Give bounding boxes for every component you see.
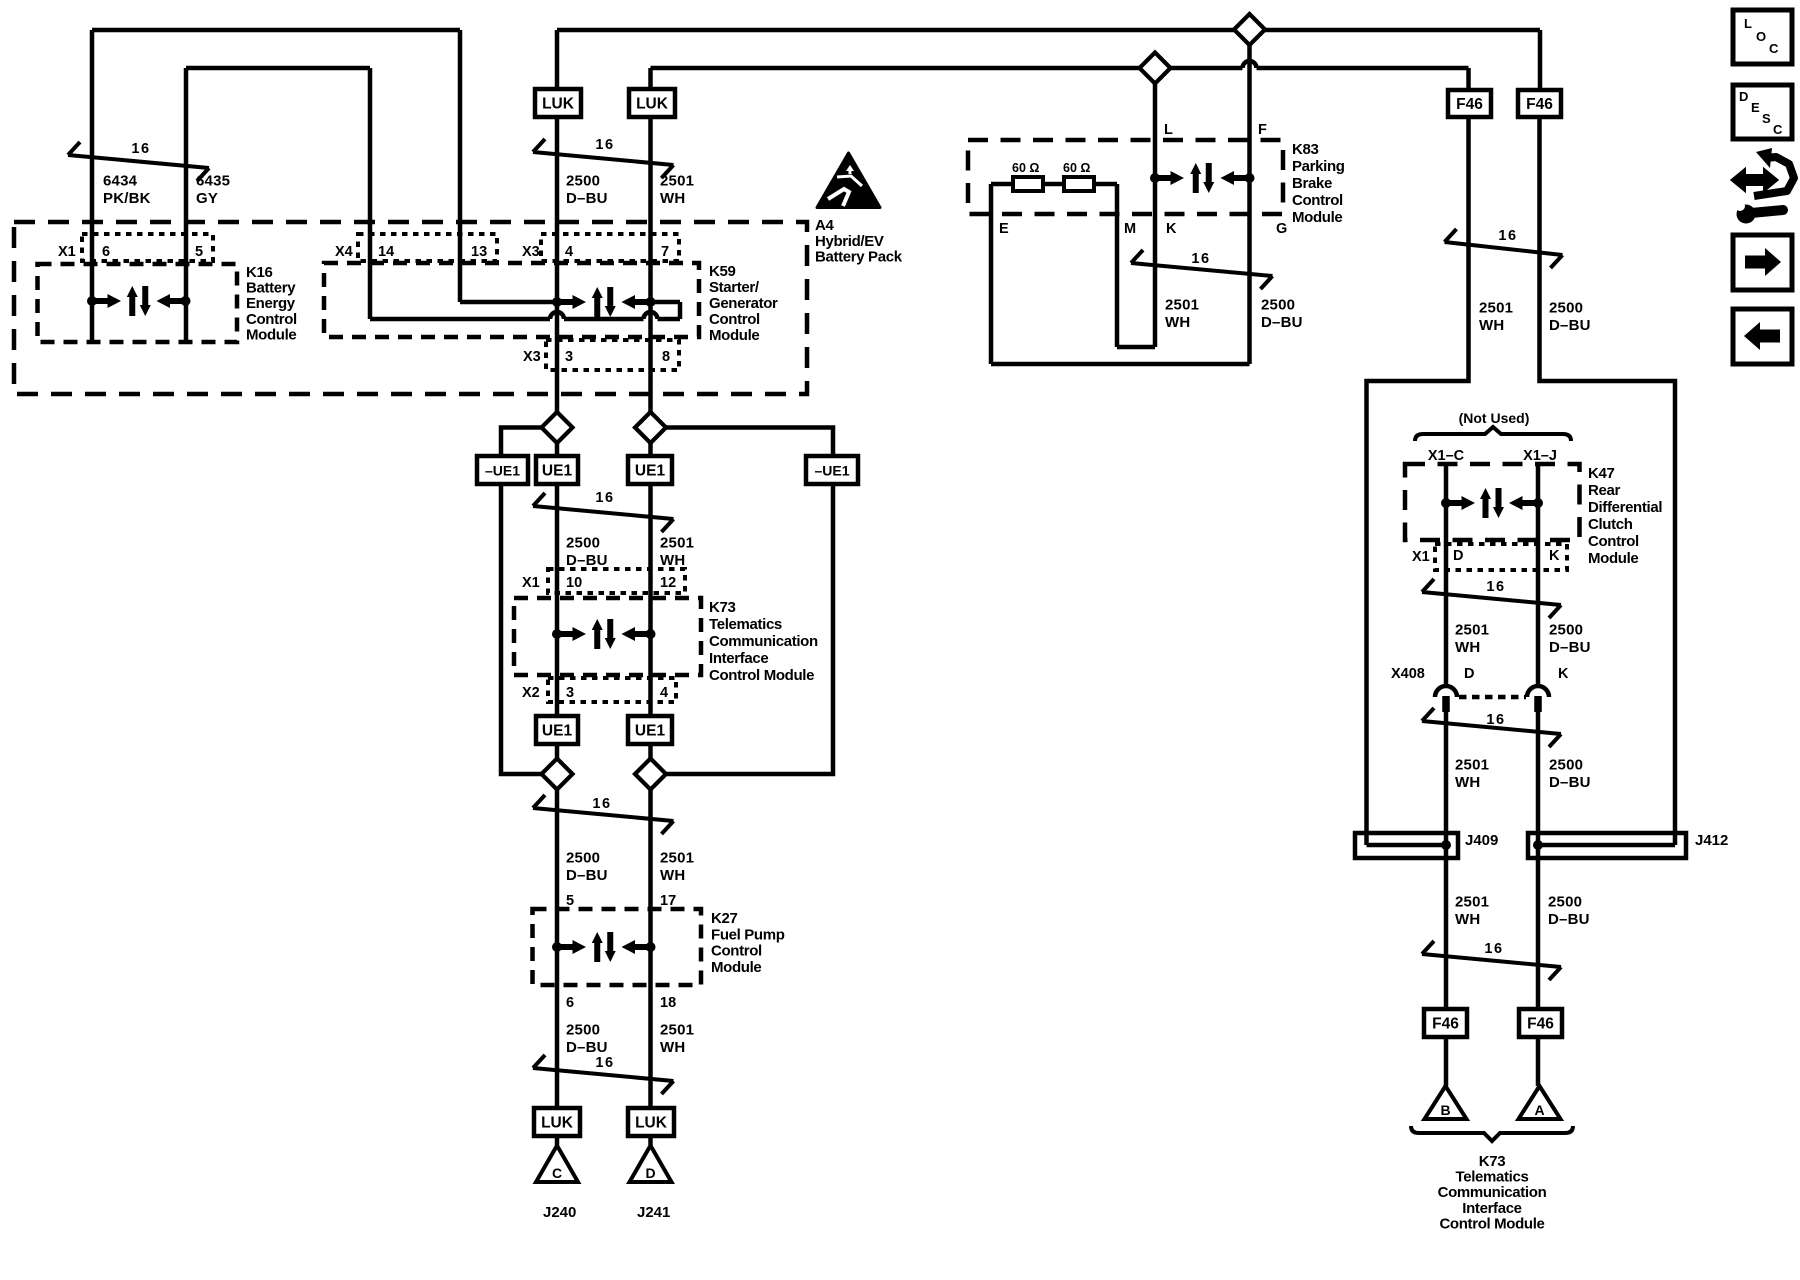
- module K47 outline: [1405, 464, 1580, 540]
- module A4 Hybrid/EV Battery Pack outline: [14, 222, 807, 394]
- node diamond 2500 lower-mid: [542, 759, 573, 790]
- icon wire repair (arrows and wrench): [1733, 148, 1794, 224]
- pin label 6 at (566,1007): [566, 995, 574, 1011]
- label K16 Battery Energy Control Module: [246, 264, 297, 343]
- svg-text:5: 5: [195, 244, 203, 260]
- label 6435 GY: [196, 173, 230, 208]
- svg-text:Telematics: Telematics: [709, 616, 782, 633]
- gauge 16 callout (K27 upper): [533, 795, 674, 834]
- pin label K at (1549,560): [1549, 548, 1560, 564]
- wire 2501 WH right column to J409: [1367, 117, 1469, 845]
- wire K83 pin-M drop joining 2501: [1117, 184, 1155, 347]
- svg-text:Module: Module: [711, 959, 761, 976]
- pin label 13 at (471,256): [471, 244, 487, 260]
- pin label X1 at (1412,561): [1412, 549, 1430, 565]
- svg-text:2500: 2500: [1549, 757, 1583, 774]
- pin label D at (1464,678): [1464, 666, 1474, 682]
- svg-text:4: 4: [660, 685, 668, 701]
- svg-text:5: 5: [566, 893, 574, 909]
- svg-text:16: 16: [595, 490, 614, 506]
- gauge 16 callout (K27 lower): [533, 1055, 674, 1094]
- svg-text:Control: Control: [709, 311, 760, 328]
- svg-text:F46: F46: [1527, 1016, 1554, 1033]
- svg-text:3: 3: [566, 685, 574, 701]
- svg-text:2501: 2501: [660, 535, 694, 552]
- svg-text:Battery Pack: Battery Pack: [815, 249, 903, 266]
- label K73 Telematics (bottom): [1438, 1153, 1547, 1232]
- icon LOC box: [1733, 10, 1792, 64]
- hop of pin-14 loop over 2500 bus: [550, 312, 564, 319]
- svg-text:Interface: Interface: [1462, 1200, 1521, 1217]
- label 2501 WH (K47): [1455, 622, 1489, 657]
- connector LUK bottom 2500: [534, 1108, 580, 1136]
- svg-text:2500: 2500: [566, 1022, 600, 1039]
- svg-text:2501: 2501: [1455, 894, 1489, 911]
- splice J412 pack: [1528, 833, 1686, 858]
- svg-text:Control: Control: [711, 943, 762, 960]
- svg-text:2500: 2500: [566, 535, 600, 552]
- pin label E at (999,233): [999, 221, 1009, 237]
- module K27 outline: [533, 909, 702, 985]
- icon arrow right box: [1733, 235, 1792, 290]
- junction K59 serial data: [552, 287, 656, 317]
- label 2501 WH (F46 top): [1479, 300, 1513, 335]
- label K73 Telematics Communication Interface Control Module: [709, 599, 818, 684]
- svg-text:A4: A4: [815, 217, 834, 234]
- svg-text:Module: Module: [1588, 550, 1638, 567]
- svg-text:X1: X1: [1412, 549, 1430, 565]
- bus 2501 WH left column: [648, 117, 653, 1145]
- svg-text:X3: X3: [522, 244, 540, 260]
- junction K73 serial data: [552, 619, 656, 649]
- label 2500 D-BU (K83): [1261, 297, 1303, 332]
- wire 2501 WH from LUK up over to F46: [651, 68, 1469, 90]
- svg-text:K: K: [1549, 548, 1560, 564]
- svg-text:Parking: Parking: [1292, 158, 1345, 175]
- svg-text:Communication: Communication: [709, 633, 818, 650]
- icon DESC box: [1733, 85, 1792, 139]
- connector X2 pin box (K73): [548, 678, 676, 702]
- label A4 Hybrid/EV Battery Pack: [815, 217, 903, 266]
- svg-text:Fuel Pump: Fuel Pump: [711, 926, 785, 943]
- connector UE1 upper 2501: [628, 456, 672, 484]
- hazard warning triangle (A4 battery pack): [817, 153, 880, 208]
- pin label 18 at (660,1007): [660, 995, 676, 1011]
- label J409: [1465, 832, 1498, 849]
- svg-text:Control: Control: [246, 311, 297, 328]
- wire 2500 D-BU right column to J412: [1540, 117, 1676, 845]
- triangle B (to K73): [1425, 1086, 1467, 1119]
- pin label D at (1453,560): [1453, 548, 1463, 564]
- label 6434 PK/BK: [103, 173, 151, 208]
- svg-text:14: 14: [378, 244, 394, 260]
- label 2501 WH (K83): [1165, 297, 1199, 332]
- svg-text:16: 16: [595, 1055, 614, 1071]
- svg-text:WH: WH: [660, 552, 685, 569]
- svg-text:2501: 2501: [660, 850, 694, 867]
- module K16 outline: [38, 264, 238, 342]
- node diamond 2500 top line: [1234, 14, 1265, 45]
- gauge 16 callout (bottom right): [1422, 941, 1561, 980]
- svg-text:C: C: [1773, 122, 1783, 137]
- gauge 16 callout (K47 lower): [1422, 708, 1561, 747]
- label 2500 D-BU (K27 above): [566, 850, 608, 885]
- wire K47 pin X1-C / D branch: [1444, 466, 1449, 686]
- svg-text:F46: F46: [1456, 96, 1483, 113]
- svg-text:X1–J: X1–J: [1523, 448, 1557, 464]
- svg-text:Battery: Battery: [246, 280, 296, 297]
- label 2501 WH (K27 below): [660, 1022, 694, 1057]
- svg-text:LUK: LUK: [541, 1115, 574, 1132]
- label J241: [637, 1204, 670, 1221]
- node diamond 2501 upper-mid: [635, 412, 666, 443]
- label 2501 WH (K27 above): [660, 850, 694, 885]
- connector X1 pin box (K73): [548, 569, 685, 593]
- svg-text:–UE1: –UE1: [814, 463, 849, 479]
- label 2500 D-BU (K27 below): [566, 1022, 608, 1057]
- svg-text:2500: 2500: [566, 173, 600, 190]
- svg-text:S: S: [1762, 111, 1771, 126]
- connector F46 top 2501: [1448, 90, 1491, 117]
- svg-text:Module: Module: [246, 326, 296, 343]
- pin label 8 at (662,361): [662, 349, 670, 365]
- svg-text:K83: K83: [1292, 141, 1318, 158]
- svg-text:E: E: [1751, 100, 1760, 115]
- pin label X3 at (523,361): [523, 349, 541, 365]
- svg-text:GY: GY: [196, 190, 218, 207]
- pin label 3 at (565,361): [565, 349, 573, 365]
- svg-text:60 Ω: 60 Ω: [1063, 161, 1090, 175]
- svg-text:6: 6: [102, 244, 110, 260]
- svg-text:Hybrid/EV: Hybrid/EV: [815, 233, 884, 250]
- svg-text:D–BU: D–BU: [566, 190, 608, 207]
- svg-text:6434: 6434: [103, 173, 138, 190]
- svg-text:(Not Used): (Not Used): [1459, 410, 1530, 426]
- wire 6435 GY top run to K59 pin 14: [186, 68, 370, 319]
- svg-text:PK/BK: PK/BK: [103, 190, 151, 207]
- connector -UE1 right: [806, 456, 858, 484]
- wire K47 pin X1-J / K branch: [1536, 466, 1541, 686]
- pin label G at (1276,233): [1276, 221, 1287, 237]
- triangle A (to K73): [1519, 1086, 1561, 1119]
- svg-text:K16: K16: [246, 264, 272, 281]
- gauge 16 callout (top LUK): [533, 137, 674, 178]
- connector X408 half K: [1527, 686, 1549, 712]
- svg-text:16: 16: [1191, 251, 1210, 267]
- pin label X1 at (58,256): [58, 244, 76, 260]
- pin label 14 at (378,256): [378, 244, 394, 260]
- svg-text:J409: J409: [1465, 832, 1498, 849]
- svg-text:X4: X4: [335, 244, 353, 260]
- svg-text:X408: X408: [1391, 666, 1425, 682]
- svg-text:X2: X2: [522, 685, 540, 701]
- label K83 Parking Brake Control Module: [1292, 141, 1345, 226]
- svg-text:E: E: [999, 221, 1009, 237]
- node diamond 2501 lower-mid: [635, 759, 666, 790]
- svg-text:Control Module: Control Module: [1439, 1215, 1544, 1232]
- svg-text:L: L: [1744, 16, 1752, 31]
- svg-text:X3: X3: [523, 349, 541, 365]
- wire 6434 PK/BK top run: [92, 30, 460, 302]
- svg-text:F46: F46: [1526, 96, 1553, 113]
- svg-text:X1: X1: [522, 575, 540, 591]
- wire 6435 GY vertical (K16 pin 5): [184, 68, 189, 342]
- svg-text:2500: 2500: [566, 850, 600, 867]
- svg-text:B: B: [1440, 1102, 1450, 1118]
- svg-text:6435: 6435: [196, 173, 230, 190]
- gauge 16 callout (6434/6435): [68, 141, 209, 181]
- connector X4 pin box (K59): [358, 234, 497, 261]
- pin label X1-J (K47): [1523, 448, 1557, 464]
- svg-text:2501: 2501: [1479, 300, 1513, 317]
- label J240: [543, 1204, 576, 1221]
- connector -UE1 left: [477, 456, 528, 484]
- svg-text:16: 16: [1498, 228, 1517, 244]
- pin label 5 at (566,905): [566, 893, 574, 909]
- label 2500 D-BU (J412 below): [1548, 894, 1590, 929]
- connector X408 dotted link: [1459, 695, 1526, 700]
- node diamond 2501 second line: [1140, 53, 1171, 84]
- connector X1 pin box (K47): [1435, 544, 1567, 570]
- svg-text:LUK: LUK: [635, 1115, 668, 1132]
- svg-text:K: K: [1166, 221, 1177, 237]
- pin label 3 at (566,697): [566, 685, 574, 701]
- svg-text:L: L: [1164, 122, 1173, 138]
- pin label X1-C (K47): [1428, 448, 1465, 464]
- pin label X3 at (522,256): [522, 244, 540, 260]
- wire K59 pin-14 internal loop: [370, 302, 680, 319]
- connector UE1 lower 2501: [628, 716, 672, 744]
- svg-text:16: 16: [1486, 712, 1505, 728]
- svg-text:F: F: [1258, 122, 1267, 138]
- svg-text:16: 16: [592, 796, 611, 812]
- svg-text:LUK: LUK: [542, 96, 575, 113]
- triangle C (J240): [536, 1146, 578, 1183]
- svg-text:3: 3: [565, 349, 573, 365]
- pin label M at (1124,233): [1124, 221, 1136, 237]
- svg-text:UE1: UE1: [542, 463, 573, 480]
- svg-text:D–BU: D–BU: [1549, 774, 1591, 791]
- svg-text:6: 6: [566, 995, 574, 1011]
- label 2500 D-BU (top): [566, 173, 608, 208]
- module K73 outline: [514, 598, 701, 675]
- svg-text:WH: WH: [660, 1039, 685, 1056]
- wire K83 resistor chain: [991, 182, 1117, 187]
- label 2501 WH (J409 below): [1455, 894, 1489, 929]
- wire 2500 K83 pin-G loop to pin E: [991, 184, 1250, 364]
- svg-text:Module: Module: [1292, 209, 1342, 226]
- wire 2501 WH below X408 to triangle B: [1444, 697, 1449, 1086]
- wire 6434 feed into K59 junction (pin 13): [460, 300, 557, 305]
- wire 2500 D-BU from LUK up over to F46: [557, 30, 1540, 90]
- junction K47 serial data: [1441, 488, 1543, 518]
- svg-text:16: 16: [595, 137, 614, 153]
- pin label X4 at (335,256): [335, 244, 353, 260]
- junction K83 serial data: [1150, 163, 1255, 193]
- svg-text:Control: Control: [1292, 192, 1343, 209]
- svg-text:Telematics: Telematics: [1456, 1169, 1529, 1186]
- connector X3 pin box bottom (K59): [546, 340, 679, 370]
- splice bar J412: [1538, 843, 1675, 848]
- svg-text:–UE1: –UE1: [485, 463, 520, 479]
- pin label 6 at (102,256): [102, 244, 110, 260]
- svg-text:2501: 2501: [660, 1022, 694, 1039]
- svg-text:D–BU: D–BU: [1548, 911, 1590, 928]
- bus 2500 D-BU left column: [555, 117, 560, 1145]
- connector X3 pin box top (K59): [541, 234, 679, 261]
- svg-text:Module: Module: [709, 327, 759, 344]
- label 2500 D-BU (mid): [566, 535, 608, 570]
- svg-text:K47: K47: [1588, 465, 1614, 482]
- pin label X2 at (522,697): [522, 685, 540, 701]
- label J412: [1695, 832, 1728, 849]
- label 2500 D-BU (F46 top): [1549, 300, 1591, 335]
- svg-text:2500: 2500: [1548, 894, 1582, 911]
- svg-text:2501: 2501: [660, 173, 694, 190]
- svg-text:C: C: [1769, 41, 1779, 56]
- junction K27 serial data: [552, 932, 656, 962]
- label K59 Starter/Generator Control Module: [709, 263, 778, 344]
- svg-text:D: D: [1464, 666, 1474, 682]
- svg-text:UE1: UE1: [635, 463, 666, 480]
- label 2501 WH (mid): [660, 535, 694, 570]
- label 2501 WH (X408 below): [1455, 757, 1489, 792]
- icon arrow left box: [1733, 309, 1792, 364]
- pin label 12 at (660,587): [660, 575, 676, 591]
- svg-text:Rear: Rear: [1588, 482, 1620, 499]
- svg-text:D–BU: D–BU: [566, 1039, 608, 1056]
- pin label K at (1558,678): [1558, 666, 1569, 682]
- svg-text:WH: WH: [1455, 911, 1480, 928]
- svg-text:D–BU: D–BU: [566, 552, 608, 569]
- wire 2500 D-BU below X408 to triangle A: [1536, 697, 1541, 1086]
- svg-text:X1: X1: [58, 244, 76, 260]
- svg-text:7: 7: [661, 244, 669, 260]
- svg-text:J412: J412: [1695, 832, 1728, 849]
- connector LUK top 2501: [629, 89, 675, 117]
- svg-text:M: M: [1124, 221, 1136, 237]
- svg-text:G: G: [1276, 221, 1287, 237]
- svg-text:16: 16: [1486, 579, 1505, 595]
- pin label X408 at (1391,678): [1391, 666, 1425, 682]
- label 2500 D-BU (K47): [1549, 622, 1591, 657]
- svg-text:K: K: [1558, 666, 1569, 682]
- svg-text:2501: 2501: [1455, 757, 1489, 774]
- svg-text:D: D: [645, 1165, 655, 1181]
- svg-text:K59: K59: [709, 263, 735, 280]
- svg-text:Interface: Interface: [709, 650, 768, 667]
- svg-text:Generator: Generator: [709, 295, 778, 312]
- svg-text:2500: 2500: [1261, 297, 1295, 314]
- svg-text:J240: J240: [543, 1204, 576, 1221]
- svg-text:Differential: Differential: [1588, 499, 1662, 516]
- hop of 2501 line over 2500 drop: [1243, 61, 1257, 68]
- splice J409 pack: [1355, 833, 1458, 858]
- pin label X1 at (522,587): [522, 575, 540, 591]
- svg-text:K27: K27: [711, 910, 737, 927]
- pin label 10 at (566,587): [566, 575, 582, 591]
- connector F46 bottom 2501: [1424, 1009, 1467, 1037]
- wire 2501 WH drop to K83 pin L/K: [1153, 83, 1158, 347]
- brace (Not Used) over X1-C/X1-J: [1415, 427, 1571, 441]
- pin label 4 at (660,697): [660, 685, 668, 701]
- connector LUK bottom 2501: [628, 1108, 674, 1136]
- connector F46 top 2500: [1518, 90, 1561, 117]
- svg-text:D–BU: D–BU: [566, 867, 608, 884]
- svg-text:Brake: Brake: [1292, 175, 1332, 192]
- svg-text:UE1: UE1: [542, 723, 573, 740]
- pin label L at (1164,134): [1164, 122, 1173, 138]
- svg-text:16: 16: [131, 141, 150, 157]
- pin label 5 at (195,256): [195, 244, 203, 260]
- svg-text:Control: Control: [1588, 533, 1639, 550]
- svg-text:18: 18: [660, 995, 676, 1011]
- svg-text:X1–C: X1–C: [1428, 448, 1465, 464]
- svg-text:F46: F46: [1432, 1016, 1459, 1033]
- connector UE1 upper 2500: [536, 456, 578, 484]
- svg-text:WH: WH: [1455, 639, 1480, 656]
- node diamond 2500 upper-mid: [542, 412, 573, 443]
- svg-text:D: D: [1739, 89, 1748, 104]
- svg-text:4: 4: [565, 244, 573, 260]
- pin label F at (1258,134): [1258, 122, 1267, 138]
- hop of pin-14 loop over 2501 bus: [644, 312, 658, 319]
- svg-text:2500: 2500: [1549, 622, 1583, 639]
- svg-text:16: 16: [1484, 941, 1503, 957]
- gauge 16 callout (K83): [1131, 250, 1273, 289]
- svg-text:O: O: [1756, 29, 1766, 44]
- svg-text:D–BU: D–BU: [1549, 639, 1591, 656]
- svg-text:2500: 2500: [1549, 300, 1583, 317]
- svg-text:60 Ω: 60 Ω: [1012, 161, 1039, 175]
- svg-text:WH: WH: [660, 867, 685, 884]
- splice bar J409: [1367, 843, 1447, 848]
- wire -UE1 bypass right: [666, 428, 834, 775]
- svg-text:12: 12: [660, 575, 676, 591]
- label (Not Used): [1459, 410, 1530, 426]
- triangle D (J241): [630, 1146, 672, 1183]
- svg-text:LUK: LUK: [636, 96, 669, 113]
- module K59 outline: [324, 263, 699, 337]
- svg-text:2501: 2501: [1455, 622, 1489, 639]
- connector F46 bottom 2500: [1519, 1009, 1562, 1037]
- svg-text:Starter/: Starter/: [709, 279, 760, 296]
- svg-text:13: 13: [471, 244, 487, 260]
- pin label K at (1166,233): [1166, 221, 1177, 237]
- svg-text:WH: WH: [1165, 314, 1190, 331]
- connector LUK top 2500: [535, 89, 581, 117]
- wire 6434 PK/BK vertical (K16 pin 6): [90, 30, 95, 342]
- svg-text:WH: WH: [1479, 317, 1504, 334]
- label K27 Fuel Pump Control Module: [711, 910, 785, 976]
- brace K73 telematics bottom: [1411, 1126, 1573, 1141]
- label K47 Rear Differential Clutch Control Module: [1588, 465, 1662, 567]
- svg-text:Control Module: Control Module: [709, 667, 814, 684]
- svg-text:8: 8: [662, 349, 670, 365]
- svg-text:2501: 2501: [1165, 297, 1199, 314]
- connector X1 pin box (K16): [82, 234, 213, 261]
- svg-text:K73: K73: [709, 599, 735, 616]
- svg-text:D–BU: D–BU: [1549, 317, 1591, 334]
- pin label 17 at (660,905): [660, 893, 676, 909]
- svg-text:UE1: UE1: [635, 723, 666, 740]
- svg-text:Clutch: Clutch: [1588, 516, 1633, 533]
- svg-text:D–BU: D–BU: [1261, 314, 1303, 331]
- svg-text:WH: WH: [1455, 774, 1480, 791]
- wire -UE1 bypass left: [501, 428, 542, 775]
- svg-text:Energy: Energy: [246, 295, 296, 312]
- connector X408 half D: [1435, 686, 1457, 712]
